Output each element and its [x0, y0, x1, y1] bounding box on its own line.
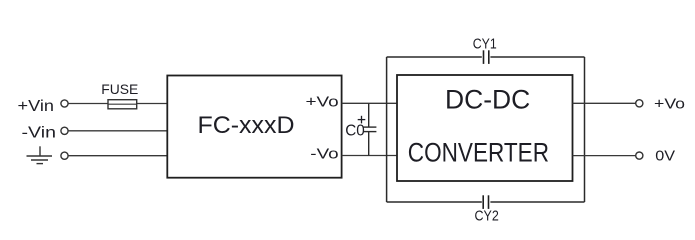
terminal circle chassis: [61, 152, 68, 159]
svg-text:DC-DC: DC-DC: [445, 85, 530, 115]
svg-text:+Vo: +Vo: [654, 97, 685, 113]
svg-text:0V: 0V: [655, 149, 675, 165]
shield loop: [387, 57, 585, 202]
ground: [27, 146, 53, 163]
DC-DC converter box U1: [397, 75, 573, 181]
svg-text:-Vin: -Vin: [22, 125, 57, 142]
terminal circle 0V out: [636, 152, 643, 159]
wire FC -Vo to converter: [342, 155, 397, 157]
fuse F1: [108, 100, 137, 109]
terminal circle -Vin: [61, 127, 68, 134]
capacitor C0: [363, 103, 376, 155]
svg-text:C0: C0: [345, 122, 365, 139]
filter module FC-xxxD box: [167, 76, 341, 178]
capacitor CY1: [484, 50, 489, 64]
wire converter 0V output: [573, 155, 636, 157]
wire converter +Vo output: [573, 102, 636, 104]
terminal circle +Vo out: [636, 100, 643, 107]
wire +Vin to FC box: [68, 103, 167, 105]
svg-text:CONVERTER: CONVERTER: [408, 137, 549, 167]
svg-text:-Vo: -Vo: [310, 147, 338, 163]
wire FC +Vo to converter: [342, 102, 397, 104]
svg-text:+Vin: +Vin: [18, 98, 55, 115]
svg-text:FUSE: FUSE: [101, 82, 138, 97]
wire -Vin to FC box: [68, 130, 167, 132]
svg-text:FC-xxxD: FC-xxxD: [198, 112, 295, 139]
terminal circle +Vin: [61, 100, 68, 107]
svg-text:CY2: CY2: [475, 207, 499, 224]
polarity plus of C0: [358, 116, 366, 124]
svg-text:CY1: CY1: [473, 35, 497, 52]
capacitor CY2: [483, 195, 488, 209]
svg-text:+Vo: +Vo: [306, 94, 339, 110]
wire chassis to FC box: [68, 155, 167, 157]
